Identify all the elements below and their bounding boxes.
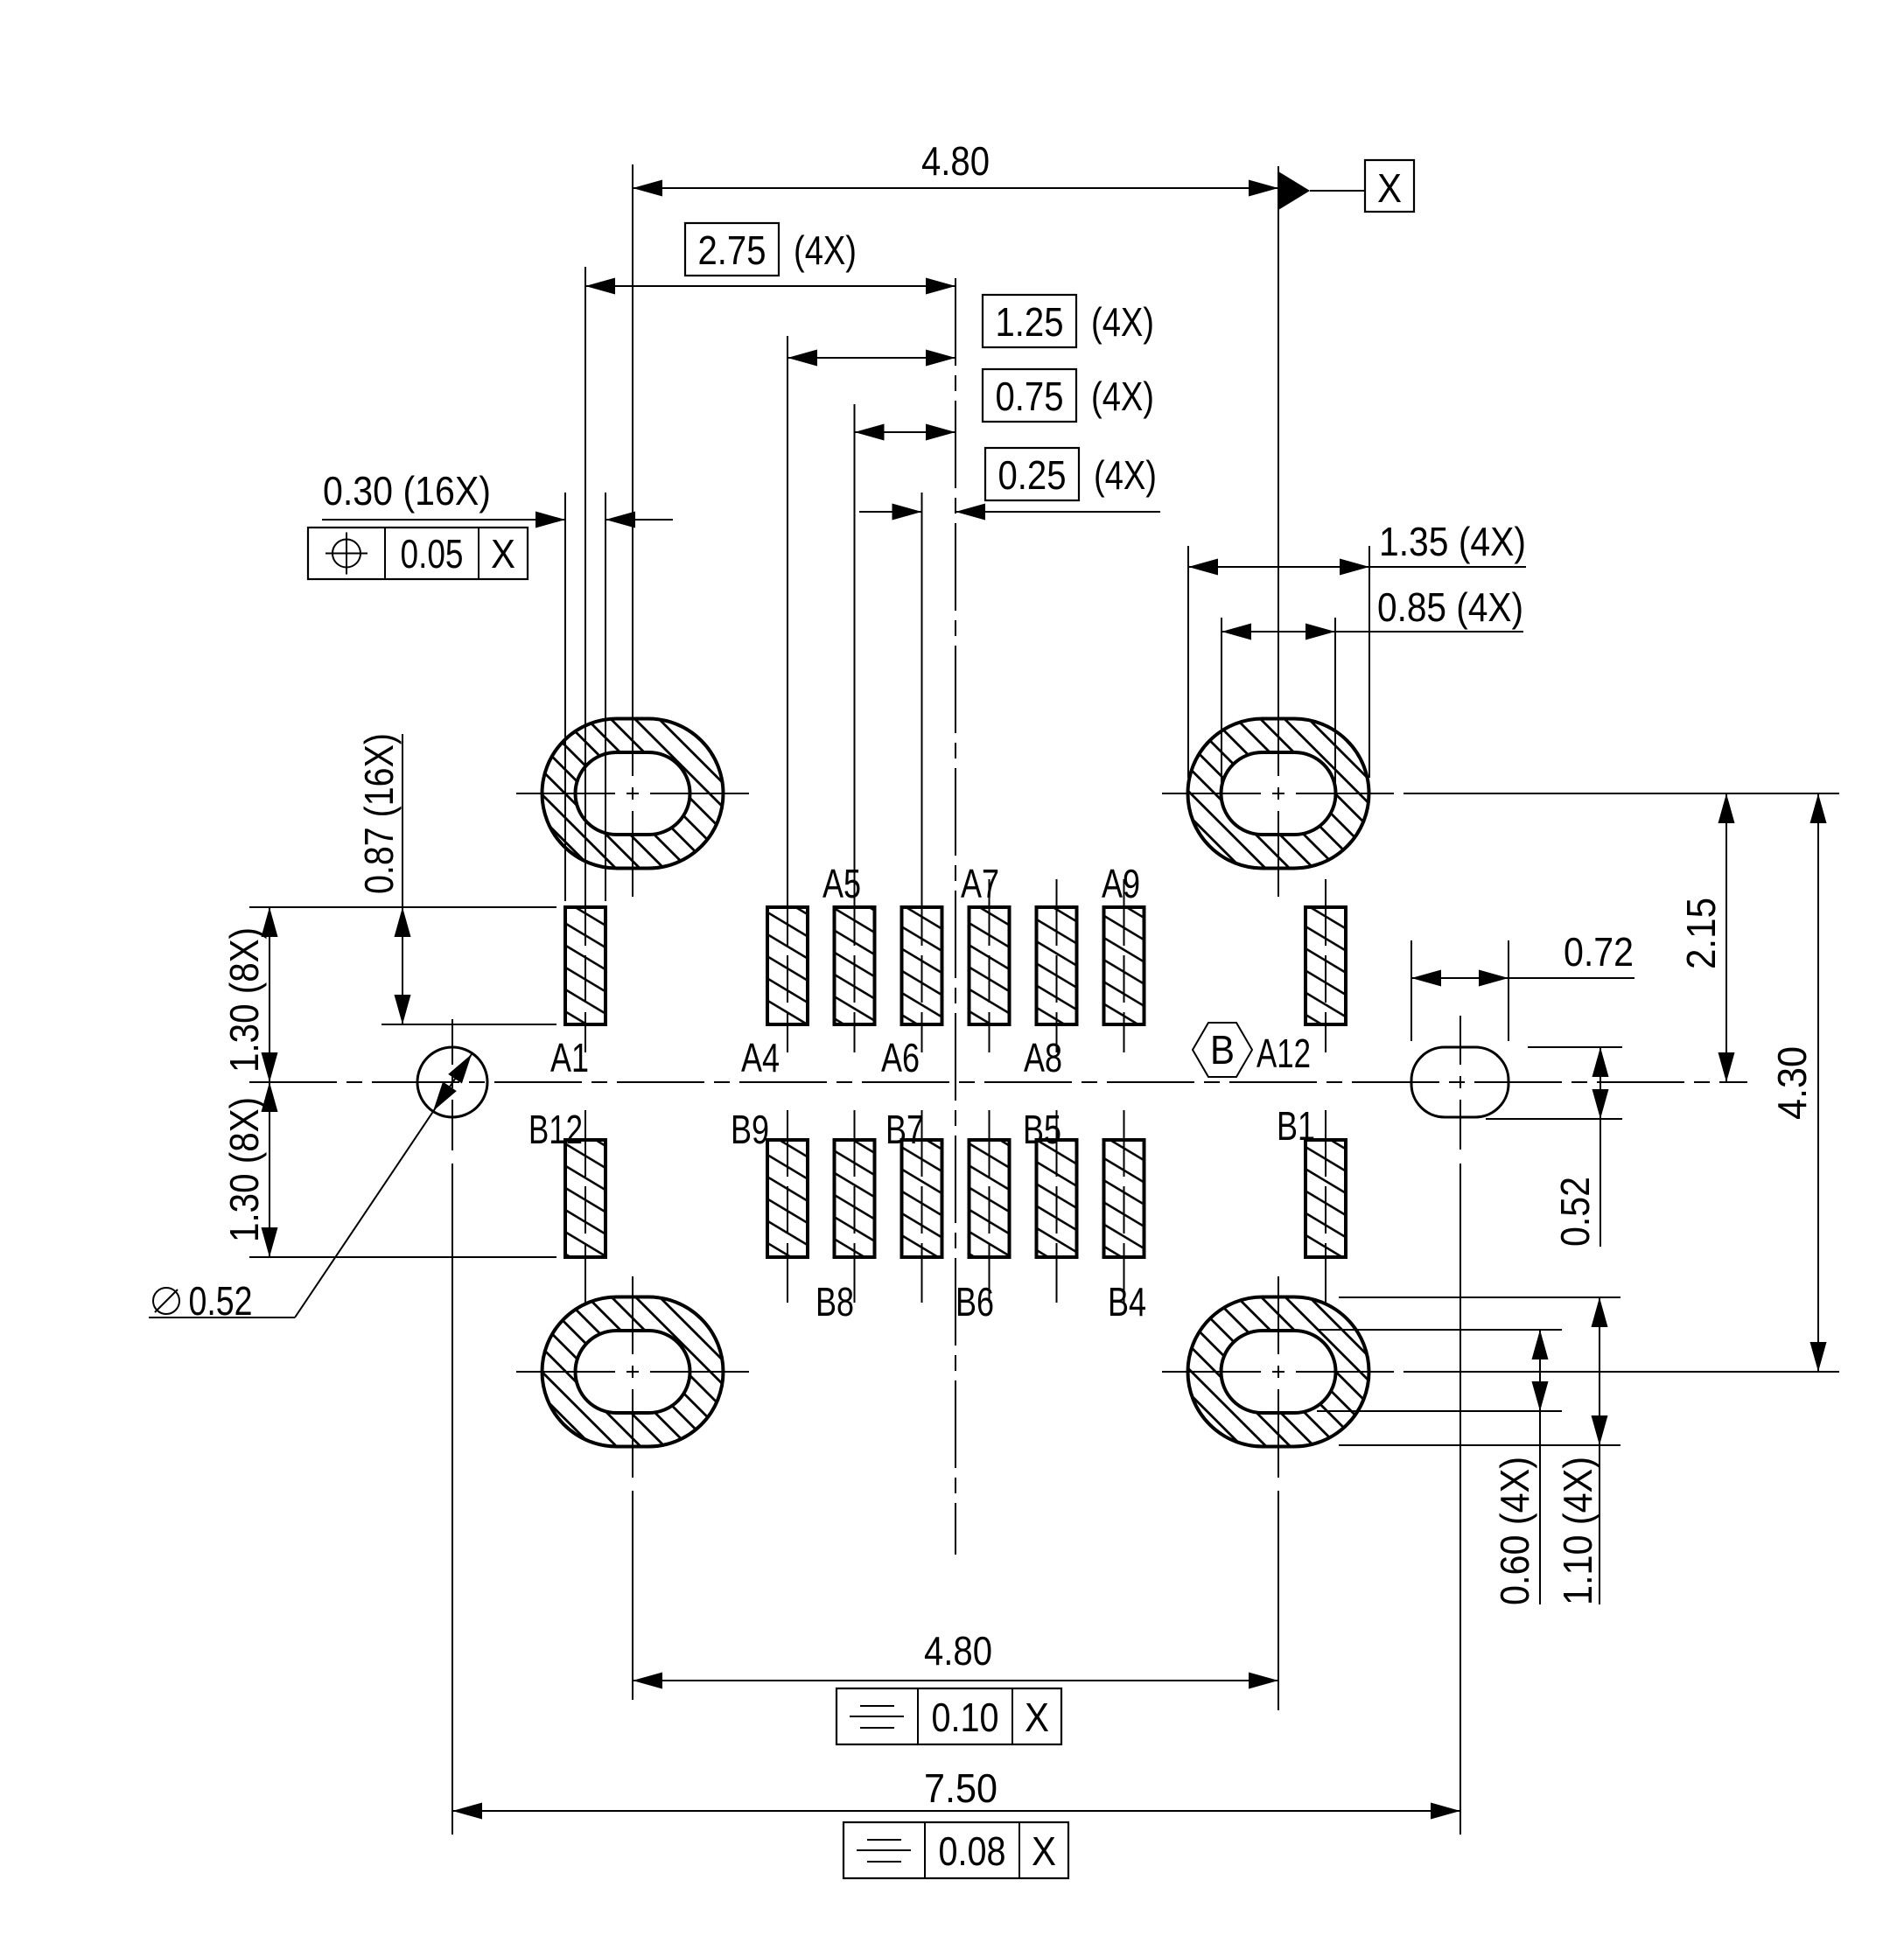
through hole circle dia 0.52	[417, 1047, 487, 1117]
centerline pad A1	[584, 879, 586, 1052]
centerline bottom-left slot	[632, 1276, 633, 1354]
centerline pad column A5 row B	[854, 1110, 856, 1303]
dimension 4.30	[1817, 793, 1819, 1372]
flag note B hexagon	[1193, 1023, 1252, 1077]
extension line slot outer left	[1187, 546, 1189, 778]
extension line slot BR hole top	[1317, 1329, 1562, 1331]
centerline pad A8	[1056, 879, 1058, 1052]
svg-text:2.15: 2.15	[1678, 898, 1724, 969]
centerline pad column A8 row B	[1056, 1110, 1058, 1303]
svg-text:A5: A5	[822, 861, 861, 906]
pad A4 (0.30 x 0.87)	[767, 907, 808, 1024]
svg-text:0.08: 0.08	[939, 1828, 1006, 1874]
centerline pad A12	[1325, 879, 1326, 1052]
svg-text:A1: A1	[550, 1035, 589, 1080]
svg-text:0.25: 0.25	[998, 452, 1067, 498]
svg-text:0.10: 0.10	[932, 1695, 999, 1740]
svg-text:X: X	[1025, 1695, 1049, 1740]
extension line A5 column	[854, 404, 856, 879]
pad B1 (0.30 x 0.87)	[1305, 1140, 1346, 1257]
extension line hole circle down	[451, 1164, 453, 1835]
centerline top-right slot	[1277, 166, 1279, 776]
pad B7 (0.30 x 0.87)	[902, 1140, 942, 1257]
mounting hole slot pad top-right (1.35 x 1.10, hole 0.85 x 0.60)	[1188, 719, 1369, 869]
extension line slot hole left	[1221, 618, 1222, 786]
vertical centerline	[955, 278, 956, 1555]
mounting hole slot pad top-left (1.35 x 1.10, hole 0.85 x 0.60)	[542, 719, 724, 869]
extension line pad A top	[249, 906, 556, 908]
extension line slot BR outer bottom	[1339, 1444, 1620, 1446]
svg-text:0.75: 0.75	[996, 374, 1064, 419]
svg-text:X: X	[491, 531, 515, 577]
extension line pad B bottom	[249, 1256, 556, 1258]
svg-text:4.80: 4.80	[921, 138, 990, 184]
dimension 0.72	[1411, 977, 1634, 979]
centerline pad column A12 row B	[1325, 1110, 1326, 1303]
dimension 2.15	[1725, 793, 1727, 1082]
pad A1 (0.30 x 0.87)	[565, 907, 605, 1024]
svg-text:4.80: 4.80	[924, 1628, 992, 1674]
dimension 0.30 (16X)	[322, 519, 565, 521]
svg-text:B4: B4	[1108, 1279, 1146, 1324]
svg-text:A12: A12	[1256, 1031, 1311, 1076]
dia symbol	[153, 1288, 179, 1314]
extension line slot row top right	[1403, 793, 1839, 794]
svg-text:B1: B1	[1277, 1103, 1315, 1149]
pad A8 (0.30 x 0.87)	[1037, 907, 1077, 1024]
centerline pad A7	[989, 879, 990, 1052]
centerline pad A6	[921, 879, 923, 1052]
leader dia 0.52 hole	[149, 1317, 295, 1318]
svg-text:A9: A9	[1102, 861, 1140, 906]
pad B6 (0.30 x 0.87)	[969, 1140, 1010, 1257]
svg-text:(4X): (4X)	[1091, 374, 1154, 419]
svg-text:X: X	[1377, 165, 1402, 211]
svg-text:B6: B6	[955, 1279, 994, 1324]
centerline through hole oblong	[1459, 1016, 1461, 1065]
svg-text:0.72: 0.72	[1564, 929, 1634, 975]
mounting hole slot pad bottom-left (1.35 x 1.10, hole 0.85 x 0.60)	[542, 1297, 724, 1447]
pad B5 (0.30 x 0.87)	[1037, 1140, 1077, 1257]
extension line A1 column	[584, 267, 586, 879]
dimension 1.10 (4X)	[1599, 1297, 1600, 1604]
svg-text:(4X): (4X)	[1094, 452, 1157, 498]
svg-text:0.85 (4X): 0.85 (4X)	[1377, 584, 1523, 630]
dimension 2.75 (4X)	[585, 285, 955, 287]
extension line slot hole right	[1334, 618, 1336, 786]
datum X symbol	[1278, 171, 1310, 210]
centerline pad column A1 row B	[584, 1110, 586, 1303]
centerline pad A9	[1123, 879, 1125, 1052]
centerline bottom-right slot	[1277, 1276, 1279, 1354]
extension line oblong bottom	[1486, 1118, 1622, 1120]
feature control frame position 0.05 X	[308, 528, 528, 579]
dimension 4.80 top	[633, 187, 1278, 189]
dimension 7.50	[452, 1810, 1460, 1812]
svg-text:X: X	[1032, 1828, 1056, 1874]
svg-text:A6: A6	[881, 1035, 920, 1080]
dimension 1.25 (4X)	[787, 357, 955, 359]
mounting hole slot pad bottom-right (1.35 x 1.10, hole 0.85 x 0.60)	[1188, 1297, 1369, 1447]
extension line A6 column	[921, 493, 923, 879]
svg-text:(4X): (4X)	[794, 227, 857, 273]
pad B4 (0.30 x 0.87)	[1104, 1140, 1144, 1257]
centerline pad column A6 row B	[921, 1110, 923, 1303]
dimension 1.30 (8X) upper	[269, 907, 270, 1082]
extension line slot BR hole bottom	[1317, 1410, 1562, 1412]
centerline pad column A7 row B	[989, 1110, 990, 1303]
feature control frame symmetry 0.08 X	[843, 1822, 1068, 1878]
extension line A1 pad right edge	[605, 493, 606, 901]
extension line slot BR outer top	[1339, 1297, 1620, 1298]
svg-text:0.30 (16X): 0.30 (16X)	[323, 468, 491, 514]
svg-text:B5: B5	[1023, 1107, 1061, 1152]
pad B8 (0.30 x 0.87)	[835, 1140, 875, 1257]
centerline pad column A4 row B	[787, 1110, 788, 1303]
svg-text:0.52: 0.52	[189, 1278, 253, 1324]
svg-text:7.50: 7.50	[924, 1765, 997, 1811]
svg-text:0.60 (4X): 0.60 (4X)	[1492, 1457, 1537, 1605]
svg-text:1.10 (4X): 1.10 (4X)	[1555, 1457, 1600, 1605]
svg-text:B9: B9	[731, 1107, 769, 1152]
svg-text:B7: B7	[885, 1107, 924, 1152]
svg-text:(4X): (4X)	[1091, 299, 1154, 345]
dimension 0.75 (4X)	[855, 431, 956, 433]
svg-text:1.30 (8X): 1.30 (8X)	[221, 927, 267, 1073]
dimension 0.60 (4X)	[1539, 1330, 1541, 1604]
dimension 1.30 (8X) lower	[269, 1082, 270, 1257]
extension line oblong top	[1528, 1046, 1622, 1048]
pad A12 (0.30 x 0.87)	[1305, 907, 1346, 1024]
dimension 0.85 (4X)	[1221, 631, 1523, 633]
pad A9 (0.30 x 0.87)	[1104, 907, 1144, 1024]
extension line oblong right	[1508, 940, 1509, 1041]
centerline through hole circle	[451, 1019, 453, 1065]
centerline pad A5	[854, 879, 856, 1052]
extension line A4 column	[787, 336, 788, 879]
feature control frame symmetry 0.10 X	[836, 1688, 1061, 1744]
pad A7 (0.30 x 0.87)	[969, 907, 1010, 1024]
extension line A1 pad left edge	[564, 493, 566, 901]
extension line oblong left	[1410, 940, 1412, 1041]
dimension 0.87 (16X)	[402, 734, 403, 1024]
extension line pad A bottom	[381, 1024, 556, 1025]
pad A6 (0.30 x 0.87)	[902, 907, 942, 1024]
pad B12 (0.30 x 0.87)	[565, 1140, 605, 1257]
dimension 4.80 bottom	[633, 1680, 1278, 1681]
pad B9 (0.30 x 0.87)	[767, 1140, 808, 1257]
svg-text:1.25: 1.25	[996, 299, 1064, 345]
extension line hole oblong down	[1459, 1164, 1461, 1835]
dimension 0.25 (4X)	[859, 511, 922, 513]
svg-text:B: B	[1210, 1027, 1235, 1073]
centerline top-left slot	[632, 164, 633, 776]
svg-text:0.52: 0.52	[1552, 1177, 1598, 1247]
svg-text:0.05: 0.05	[401, 531, 464, 577]
svg-text:0.87 (16X): 0.87 (16X)	[356, 733, 402, 894]
centerline pad A4	[787, 879, 788, 1052]
svg-text:B12: B12	[528, 1107, 583, 1152]
svg-text:2.75: 2.75	[698, 227, 766, 273]
dimension 1.35 (4X)	[1188, 566, 1526, 568]
svg-text:A8: A8	[1024, 1035, 1062, 1080]
svg-text:1.35 (4X): 1.35 (4X)	[1379, 519, 1526, 564]
dimension 0.52 oblong height	[1599, 1047, 1601, 1247]
extension line slot outer right	[1368, 546, 1370, 778]
svg-text:4.30: 4.30	[1769, 1046, 1815, 1120]
svg-text:A7: A7	[961, 861, 999, 906]
svg-text:A4: A4	[741, 1035, 780, 1080]
svg-text:B8: B8	[815, 1279, 854, 1324]
pad A5 (0.30 x 0.87)	[835, 907, 875, 1024]
centerline pad column A9 row B	[1123, 1110, 1125, 1303]
through hole oblong 0.72 x 0.52	[1411, 1047, 1508, 1117]
extension line slot row bottom right	[1403, 1371, 1839, 1373]
svg-text:1.30 (8X): 1.30 (8X)	[221, 1097, 267, 1242]
horizontal centerline	[249, 1081, 1747, 1083]
